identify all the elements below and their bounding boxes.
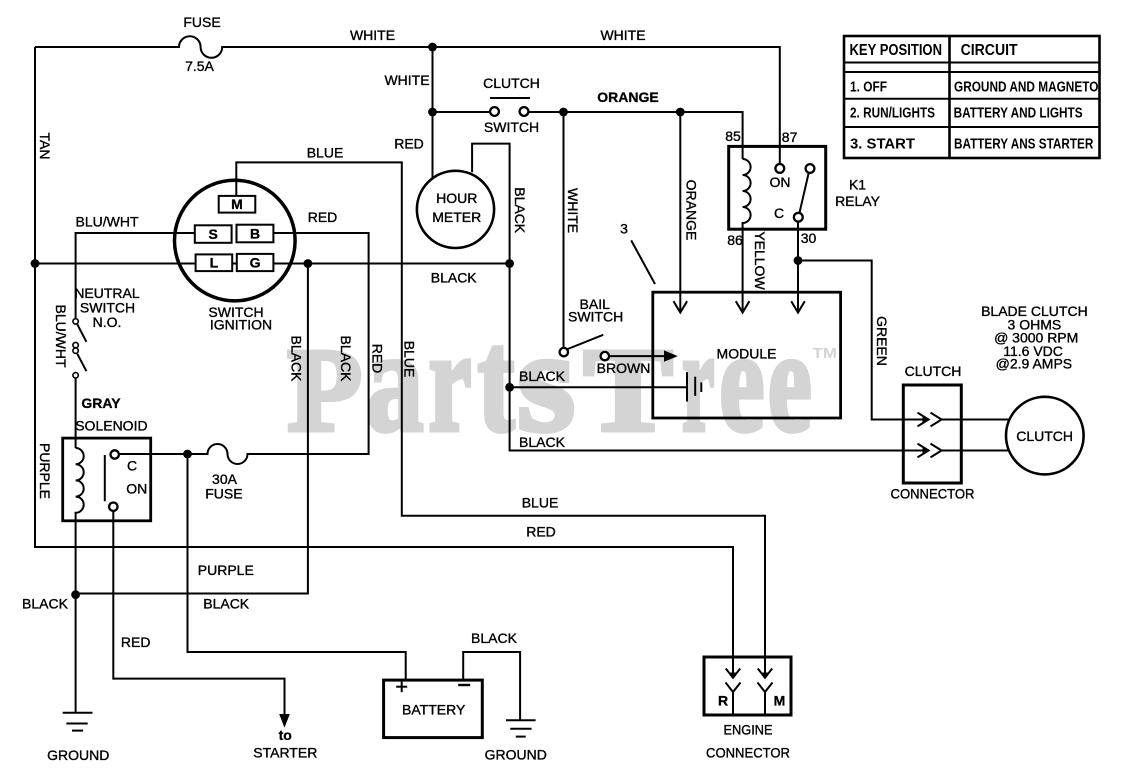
junction: orange drop to module: [676, 108, 685, 117]
svg-text:a: a: [366, 300, 424, 462]
clutch switch bar: [490, 97, 530, 99]
svg-text:STARTER: STARTER: [253, 745, 317, 761]
svg-text:GROUND AND MAGNETO: GROUND AND MAGNETO: [954, 79, 1098, 95]
table row text: [850, 79, 1098, 152]
svg-text:ENGINE: ENGINE: [724, 722, 773, 738]
svg-text:BLACK: BLACK: [289, 336, 305, 383]
svg-text:BLACK: BLACK: [22, 596, 69, 612]
svg-text:MODULE: MODULE: [717, 346, 777, 362]
clutch switch contacts: [490, 107, 499, 116]
svg-text:BLACK: BLACK: [431, 269, 478, 285]
svg-text:RED: RED: [394, 136, 424, 152]
wire: hour meter black down, across to clutch connector lower: [472, 144, 926, 451]
svg-text:@2.9 AMPS: @2.9 AMPS: [996, 356, 1072, 372]
wire: BLU/WHT from S terminal to neutral switch and solenoid coil: [76, 233, 195, 319]
svg-text:FUSE: FUSE: [183, 14, 220, 30]
table row lines: [844, 63, 1100, 128]
solenoid box: [63, 438, 151, 521]
wire: solenoid ground stem: [75, 595, 77, 713]
svg-text:BROWN: BROWN: [597, 360, 651, 376]
svg-text:M: M: [231, 196, 243, 212]
battery box: [384, 680, 483, 738]
svg-text:TAN: TAN: [37, 133, 53, 160]
svg-text:RED: RED: [308, 209, 338, 225]
wire: top white run with fuse 7.5A: [35, 36, 780, 164]
svg-text:CLUTCH: CLUTCH: [905, 363, 962, 379]
junction: relay 30 / green wire: [794, 256, 803, 265]
svg-text:G: G: [250, 255, 261, 271]
svg-text:N.O.: N.O.: [93, 314, 122, 330]
wire: battery negative to ground: [463, 652, 520, 720]
svg-text:K1: K1: [849, 177, 866, 193]
svg-text:BATTERY AND LIGHTS: BATTERY AND LIGHTS: [954, 106, 1083, 122]
svg-text:BLACK: BLACK: [203, 596, 250, 612]
bail switch blade: [567, 335, 604, 350]
relay coil K1: [743, 159, 751, 229]
svg-text:BLUE: BLUE: [522, 494, 559, 510]
svg-text:YELLOW: YELLOW: [752, 231, 768, 290]
svg-text:R: R: [718, 692, 728, 708]
svg-text:GRAY: GRAY: [81, 395, 121, 411]
switch ignition circle: [175, 180, 296, 301]
svg-text:BLACK: BLACK: [519, 368, 566, 384]
wire: relay 86 to module arrow: [742, 229, 744, 312]
wire: solenoid ON red wire to starter: [113, 511, 284, 714]
neutral switch contacts: [73, 319, 78, 378]
svg-text:WHITE: WHITE: [565, 188, 581, 233]
wire: black from junction into module ground: [510, 386, 687, 388]
ground (battery): [506, 720, 536, 736]
table header text: [850, 42, 1019, 59]
engine connector box: [704, 657, 791, 715]
svg-text:KEY POSITION: KEY POSITION: [850, 42, 943, 59]
watermark PartsTree: [288, 300, 838, 462]
wire: white vertical to hour meter: [432, 47, 434, 178]
junction: L-G line / hour meter black: [505, 259, 514, 268]
svg-text:GROUND: GROUND: [485, 747, 547, 763]
svg-text:HOUR: HOUR: [436, 190, 477, 206]
svg-text:CIRCUIT: CIRCUIT: [961, 42, 1018, 59]
clutch circle: [1006, 397, 1084, 475]
svg-text:T: T: [584, 324, 673, 456]
svg-text:SWITCH: SWITCH: [484, 119, 539, 135]
svg-text:C: C: [774, 205, 784, 221]
ignition terminal M: [219, 196, 256, 213]
ignition terminal S: [195, 225, 232, 243]
relay K1 box: [729, 146, 826, 229]
svg-text:BLUE: BLUE: [307, 145, 344, 161]
svg-text:CLUTCH: CLUTCH: [1016, 428, 1073, 444]
svg-text:RED: RED: [526, 523, 556, 539]
wire: relay 30 down to module arrow: [797, 221, 799, 312]
module box: [653, 292, 841, 418]
wire: white vertical to bail switch: [563, 112, 565, 348]
junction: 30A fuse / purple drop: [183, 450, 192, 459]
svg-text:30: 30: [801, 230, 817, 246]
svg-text:PURPLE: PURPLE: [198, 562, 254, 578]
relay 87 pin: [775, 164, 784, 173]
svg-text:WHITE: WHITE: [350, 27, 395, 43]
arrow to starter: [279, 714, 290, 728]
svg-text:FUSE: FUSE: [205, 486, 242, 502]
wire: clutch switch orange run to relay coil: [433, 111, 491, 113]
svg-text:GREEN: GREEN: [874, 316, 890, 366]
svg-text:3. START: 3. START: [850, 137, 915, 153]
svg-text:BLACK: BLACK: [471, 630, 518, 646]
svg-text:7.5A: 7.5A: [185, 58, 214, 74]
battery minus terminal: [458, 684, 470, 686]
KEY POSITION table frame: [844, 36, 1100, 158]
wire: black vertical from L/G junction down and left to solenoid ground junction: [77, 264, 308, 594]
svg-text:C: C: [127, 457, 137, 473]
svg-text:RELAY: RELAY: [835, 193, 881, 209]
svg-text:RED: RED: [121, 634, 151, 650]
junction: white wire at fuse run: [428, 43, 437, 52]
svg-text:BLU/WHT: BLU/WHT: [53, 305, 69, 368]
ignition terminal G: [237, 254, 274, 271]
svg-text:2. RUN/LIGHTS: 2. RUN/LIGHTS: [850, 106, 935, 122]
bail switch contacts: [560, 348, 568, 356]
svg-text:M: M: [774, 692, 786, 708]
svg-text:S: S: [209, 226, 218, 242]
svg-text:SWITCH: SWITCH: [568, 309, 623, 325]
svg-text:SOLENOID: SOLENOID: [75, 417, 147, 433]
junction: black drop from L-G line: [304, 259, 313, 268]
wire: red from B terminal down to 30A fuse line to solenoid C: [119, 233, 369, 464]
junction: white wire to clutch switch: [428, 108, 437, 117]
wire: blue from M terminal to engine connector M: [236, 162, 765, 677]
svg-text:WHITE: WHITE: [384, 72, 429, 88]
solenoid switch: [104, 455, 106, 501]
svg-text:r: r: [429, 300, 472, 462]
svg-text:1. OFF: 1. OFF: [850, 79, 887, 95]
svg-text:IGNITION: IGNITION: [210, 317, 272, 333]
svg-text:CLUTCH: CLUTCH: [483, 75, 540, 91]
svg-text:PURPLE: PURPLE: [37, 443, 53, 499]
solenoid coil: [76, 448, 84, 595]
junction: solenoid ground / black line: [71, 590, 80, 599]
svg-text:e: e: [719, 300, 764, 462]
svg-text:METER: METER: [432, 209, 481, 225]
module ground bars: [687, 372, 701, 401]
junction: black to module ground: [505, 383, 514, 392]
hour meter: [417, 171, 494, 248]
junction: tan rail / L-G black line: [31, 259, 40, 268]
wire: orange vertical to module arrow: [679, 112, 681, 313]
ground (left): [63, 713, 93, 731]
svg-text:BLACK: BLACK: [512, 187, 528, 234]
svg-text:L: L: [210, 255, 219, 271]
svg-text:TM: TM: [813, 345, 838, 362]
battery plus terminal: [396, 681, 407, 692]
callout 3 leader line: [631, 240, 655, 284]
svg-text:3: 3: [620, 221, 628, 237]
svg-text:to: to: [279, 727, 292, 743]
svg-text:ON: ON: [770, 174, 791, 190]
wire: left rail TAN/RED down and across to engine connector R: [35, 47, 733, 678]
svg-text:BLACK: BLACK: [338, 336, 354, 383]
svg-text:e: e: [768, 300, 812, 462]
ignition terminal L: [196, 254, 233, 271]
svg-text:B: B: [250, 226, 260, 242]
relay switch: [806, 164, 815, 173]
svg-text:RED: RED: [369, 344, 385, 374]
svg-text:NEUTRAL: NEUTRAL: [74, 285, 140, 301]
svg-text:87: 87: [782, 129, 798, 145]
svg-text:GROUND: GROUND: [47, 747, 109, 763]
svg-text:WHITE: WHITE: [600, 27, 645, 43]
svg-text:CONNECTOR: CONNECTOR: [706, 745, 790, 761]
svg-text:30A: 30A: [212, 471, 238, 487]
svg-text:CONNECTOR: CONNECTOR: [891, 486, 975, 502]
svg-text:BLU/WHT: BLU/WHT: [76, 214, 139, 230]
svg-text:ORANGE: ORANGE: [684, 180, 700, 241]
ignition terminal B: [237, 225, 274, 243]
svg-text:BATTERY: BATTERY: [402, 702, 466, 718]
svg-text:ORANGE: ORANGE: [597, 89, 658, 105]
svg-text:85: 85: [725, 128, 741, 144]
svg-text:ON: ON: [126, 481, 147, 497]
clutch connector box: [903, 385, 961, 483]
svg-text:BLACK: BLACK: [519, 434, 566, 450]
junction: white drop to bail switch: [559, 108, 568, 117]
wire: purple from fuse junction to battery +: [188, 454, 406, 680]
svg-text:BATTERY ANS STARTER: BATTERY ANS STARTER: [954, 137, 1094, 153]
clutch connector chevrons upper: [918, 413, 942, 458]
wire: green from relay 30 junction to clutch connector and clutch: [798, 261, 926, 420]
engine connector internal arrows: [726, 669, 773, 714]
wire: ignition L/G black line: [35, 263, 510, 265]
wire: bail switch brown to module: [609, 355, 665, 357]
svg-text:86: 86: [727, 232, 743, 248]
svg-text:BLUE: BLUE: [402, 341, 418, 378]
